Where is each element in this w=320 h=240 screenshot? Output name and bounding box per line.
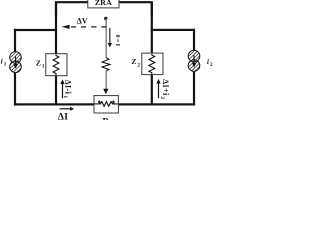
resistor middle zigzag: [102, 58, 110, 71]
wire middle gray lower (resistor to arrow): [106, 71, 107, 90]
wire bottom horizontal right part: [118, 103, 195, 105]
current source i2 (two hatched circles): [182, 36, 206, 85]
arrow dI+i2 pointing up: [158, 83, 159, 99]
current source i1 (two hatched circles): [4, 37, 28, 86]
svg-text:ZRA: ZRA: [95, 0, 112, 7]
resistor zigzag in Rm box: [95, 101, 119, 106]
wire top-right horizontal: [119, 1, 153, 15]
arrow inside i1 pointing down: [15, 57, 16, 65]
svg-text:2: 2: [137, 63, 140, 69]
svg-text:2: 2: [159, 96, 165, 99]
svg-text:Z: Z: [131, 57, 136, 66]
label dI-i1 rotated: [62, 80, 73, 99]
wire right branch horizontal y=29.9: [151, 29, 195, 31]
label dI+i2 rotated: [159, 79, 170, 99]
wire left column vertical (top wire to Z1 box): [55, 3, 57, 54]
wire right column vertical (top wire to Z2 box): [151, 3, 153, 54]
svg-text:ΔI+i: ΔI+i: [161, 79, 170, 96]
svg-text:ΔI-i: ΔI-i: [64, 80, 73, 95]
dV dashed arrow: [62, 25, 107, 29]
node junction dot: [104, 17, 107, 20]
impedance Z2 box: [142, 53, 163, 75]
svg-text:1: 1: [4, 61, 7, 67]
wire Z2 lower vertical (box bottom to bottom wire): [151, 74, 153, 104]
wire Z1 lower vertical (box bottom to bottom wire): [55, 76, 57, 105]
svg-text:ΔI: ΔI: [58, 112, 68, 120]
svg-text:Z: Z: [36, 59, 41, 68]
arrow inside i2 pointing down: [194, 55, 195, 63]
wire top-left horizontal: [55, 1, 88, 15]
ZRA box U3: [88, 0, 119, 8]
wire left outer vertical upper (branch to circles): [14, 29, 16, 54]
wire right outer vertical upper (branch to circles): [193, 29, 195, 52]
svg-text:1: 1: [42, 64, 45, 70]
wire right outer vertical lower (circles to bottom): [193, 71, 195, 105]
measuring resistor box Rm: [94, 96, 118, 113]
arrow dI-i1 pointing up: [62, 83, 63, 98]
impedance Z1 box: [46, 54, 67, 76]
svg-text:ΔV: ΔV: [77, 16, 88, 25]
svg-text:2: 2: [210, 62, 213, 68]
svg-text:I = 0: I = 0: [116, 35, 122, 46]
wire bottom horizontal left part: [14, 103, 94, 105]
arrowhead into Rm box: [103, 89, 108, 94]
wire left outer vertical lower (circles to bottom): [14, 72, 16, 105]
wire middle gray upper (dot to resistor): [106, 19, 107, 58]
arrow dI pointing right: [60, 108, 71, 109]
wire left branch horizontal y=30: [14, 29, 57, 31]
resistor zigzag in Z2: [149, 54, 155, 74]
arrow I=0 pointing down: [109, 28, 110, 43]
svg-text:R: R: [103, 116, 110, 120]
resistor zigzag in Z1: [53, 55, 59, 76]
svg-text:1: 1: [62, 95, 68, 98]
